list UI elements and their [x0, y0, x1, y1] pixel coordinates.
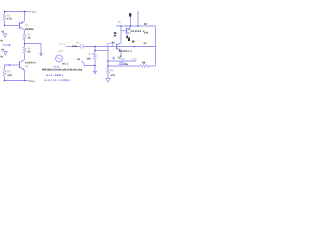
wire top rail Vcc	[5, 11, 29, 13]
flag V1 triangle	[3, 34, 7, 38]
resistor R3	[23, 47, 26, 53]
wire Q1 collector to R2	[24, 30, 26, 34]
node dot rail left	[4, 11, 6, 13]
svg-text:1.0u: 1.0u	[72, 45, 77, 48]
arrow Q4 emitter	[128, 28, 130, 30]
wire R4 bottom	[4, 77, 6, 81]
node dot rail3 108	[107, 65, 109, 67]
wire probe tap	[95, 50, 108, 52]
svg-text:Aac 3MHz: Aac 3MHz	[46, 74, 64, 77]
wire x130 net stub	[130, 17, 132, 28]
arrow Q5 emitter	[118, 49, 120, 51]
node dot rail right	[24, 11, 26, 13]
component box x108	[108, 43, 113, 46]
svg-text:2N3904_2: 2N3904_2	[119, 50, 133, 53]
transistor Q4 base bar	[126, 28, 128, 34]
node dot top26 138	[137, 25, 139, 27]
wire Q5 emitter down	[120, 50, 122, 56]
AC source V3 circle	[56, 55, 63, 62]
svg-text:vin2: vin2	[58, 50, 63, 53]
svg-text:10k: 10k	[87, 57, 92, 60]
wire stub left mid	[3, 44, 10, 46]
resistor R4	[3, 69, 6, 77]
arrow down left circuit	[39, 53, 43, 57]
node dot collector1	[24, 43, 26, 45]
wire Q1 emitter to Vcc rail	[24, 12, 26, 22]
wire node to arrow corner	[25, 43, 42, 45]
capacitor C2 bottom stub	[121, 65, 123, 67]
node dot switch95	[94, 65, 96, 67]
wire arrow vertical	[40, 44, 42, 54]
ground G3	[93, 71, 97, 74]
label tiny 132	[132, 41, 135, 43]
wire R6 bottom	[107, 73, 109, 76]
wire right vertical	[155, 26, 157, 66]
wire gnd3 stem	[94, 66, 96, 71]
AC source sine	[57, 58, 61, 60]
wire Q4 collector stub	[126, 34, 128, 37]
transistor Q1 collector diagonal	[20, 27, 25, 30]
transistor Q1 base bar	[19, 22, 21, 29]
wire Q2 emitter down	[24, 70, 26, 81]
wire rail2	[108, 60, 136, 62]
resistor R1	[3, 14, 6, 21]
ground G2 stem	[107, 75, 109, 78]
svg-text:R5: R5	[89, 53, 95, 56]
wire switch to node	[84, 64, 95, 66]
wire bottom rail	[5, 80, 29, 82]
svg-text:4.7k: 4.7k	[110, 74, 115, 77]
transistor Q2 emitter diagonal	[20, 67, 25, 70]
flag V1 stem	[4, 33, 6, 34]
arrow Q2 emitter	[22, 68, 24, 70]
svg-text:4.7k: 4.7k	[7, 18, 12, 21]
svg-text:2N3906_2: 2N3906_2	[131, 30, 145, 33]
svg-text:10u: 10u	[124, 63, 129, 66]
resistor R5	[94, 53, 97, 59]
wire R3 bottom to Q2 collector	[24, 53, 26, 60]
wire top right rail	[116, 25, 156, 27]
flag V2 triangle	[4, 51, 8, 55]
svg-text:10k: 10k	[144, 31, 149, 34]
svg-text:Q1: Q1	[25, 24, 29, 27]
label Q4 stub blob	[126, 36, 128, 38]
wire Q2 base	[10, 64, 20, 66]
node dot base1	[4, 25, 6, 27]
wire x95 down	[94, 47, 96, 54]
transistor Q5 base bar	[116, 44, 118, 50]
wire rail3 to corner	[148, 65, 155, 67]
wire R2 bottom to node	[24, 39, 26, 47]
node dot bottom left	[4, 80, 6, 82]
label tiny blue 113	[113, 57, 115, 59]
ground G2 x108	[106, 78, 111, 82]
svg-text:4.7k: 4.7k	[7, 74, 12, 77]
node dot stub left	[9, 44, 11, 46]
transistor Q4 base bend	[121, 26, 126, 31]
capacitor C1 plate left	[80, 44, 82, 49]
capacitor C2 plate top	[119, 62, 125, 64]
node dot probe95	[94, 50, 96, 52]
wire R5 bottom	[94, 59, 96, 71]
resistor R2	[23, 33, 26, 39]
junction dots	[4, 11, 139, 82]
wire R1 top lead	[4, 12, 6, 15]
wire Q5 collector up	[120, 26, 122, 43]
node dot base2	[9, 64, 11, 66]
svg-text:2N3906: 2N3906	[25, 28, 34, 31]
node dot top26 130	[130, 25, 132, 27]
svg-text:Vcc: Vcc	[29, 11, 36, 14]
wire x138 stub	[137, 11, 139, 26]
arrow Q1 emitter	[21, 21, 23, 24]
label R mid pair	[114, 32, 117, 34]
wire input rail main	[83, 46, 155, 48]
transistor Q1 emitter diagonal	[20, 21, 25, 24]
node dot bottom emitter	[24, 80, 26, 82]
svg-text:Vee: Vee	[29, 80, 35, 83]
label x130 net blob	[129, 13, 131, 16]
capacitor C2 plate bottom	[119, 63, 125, 65]
switch S1 lever	[82, 61, 85, 64]
svg-text:PRE-BIAS 4.5 kOhm (Rc 1k Re 24: PRE-BIAS 4.5 kOhm (Rc 1k Re 24o 10u)	[42, 68, 82, 71]
resistor R6	[107, 68, 110, 74]
node dot rail2 108	[107, 60, 109, 62]
wire R4 top bend	[5, 65, 10, 69]
node dot input95	[94, 46, 96, 48]
transistor Q4 emitter diagonal	[127, 27, 131, 29]
transistor Q2 base bar	[19, 62, 21, 69]
capacitor C1 plate right	[82, 44, 84, 49]
wire x108 vertical	[107, 47, 109, 69]
wire input rail left	[66, 46, 80, 48]
capacitor C2 top stub	[121, 61, 123, 63]
svg-text:Vin: Vin	[60, 43, 66, 46]
node dot top26 121	[120, 25, 122, 27]
transistor Q2 collector diagonal	[20, 60, 25, 63]
wire base node to Q1 base	[5, 25, 20, 27]
flag V2 stem	[5, 49, 7, 52]
node dot emitter121	[120, 55, 122, 57]
resistor R8 horizontal	[140, 65, 149, 68]
svg-text:AC 1: AC 1	[62, 62, 68, 65]
transistor Q5 collector diagonal	[117, 43, 121, 45]
label blob 128	[128, 38, 130, 41]
transistor Q5 emitter diagonal	[117, 48, 121, 50]
arrow up x138	[137, 11, 139, 14]
transistor Q4 collector diagonal	[127, 32, 131, 34]
wire rail3 right	[108, 65, 140, 67]
node dot rail134	[133, 46, 135, 48]
label gray dash	[132, 58, 137, 61]
svg-text:1n: 1n	[143, 42, 146, 45]
svg-text:ac dec 10k 1 100MEG: ac dec 10k 1 100MEG	[44, 79, 70, 82]
wire R1 bottom to base node	[4, 21, 6, 26]
